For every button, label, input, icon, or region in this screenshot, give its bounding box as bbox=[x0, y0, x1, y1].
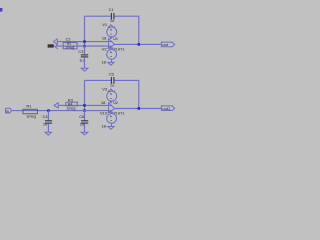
svg-text:1meg: 1meg bbox=[66, 107, 75, 111]
svg-text:C1: C1 bbox=[109, 7, 115, 12]
wire: node column bbox=[84, 80, 86, 110]
net stub fragment at left edge bbox=[0, 8, 2, 12]
junction node/lower bbox=[83, 109, 86, 112]
capacitor C4 bbox=[45, 111, 52, 133]
svg-text:V1: V1 bbox=[102, 22, 108, 27]
port out bbox=[161, 42, 174, 47]
wire: node column bbox=[84, 16, 86, 46]
svg-text:18: 18 bbox=[102, 36, 107, 41]
svg-text:C2: C2 bbox=[66, 37, 71, 42]
wire: feedback right segment + vertical drop bbox=[114, 16, 139, 44]
svg-text:1u: 1u bbox=[80, 121, 84, 126]
port out1 bbox=[161, 106, 174, 111]
capacitor C5 bbox=[111, 77, 114, 84]
wire: lower input line bottom stage bbox=[11, 110, 108, 112]
capacitor C1 bbox=[111, 13, 114, 20]
svg-text:U1: U1 bbox=[113, 37, 118, 41]
svg-text:C6: C6 bbox=[79, 114, 85, 119]
wire: feedback right segment + vertical drop bbox=[114, 80, 139, 108]
ground of C3 bbox=[81, 68, 88, 71]
port in bbox=[6, 108, 12, 113]
svg-text:1u: 1u bbox=[110, 18, 114, 23]
net tag chevron bbox=[55, 44, 58, 49]
wire: output to port bbox=[115, 43, 162, 45]
resistor R3 box bbox=[66, 102, 77, 106]
svg-text:C4: C4 bbox=[43, 114, 49, 119]
svg-text:R1: R1 bbox=[26, 104, 32, 109]
junction output/feedback bbox=[138, 43, 141, 46]
junction output/feedback bbox=[138, 107, 141, 110]
capacitor C6 bbox=[81, 111, 88, 133]
voltage source V3 bbox=[107, 89, 117, 103]
svg-text:18: 18 bbox=[101, 100, 106, 105]
svg-text:1u: 1u bbox=[79, 58, 83, 63]
svg-text:1meg: 1meg bbox=[26, 114, 36, 119]
input arrow flag bbox=[53, 39, 57, 44]
svg-text:U2: U2 bbox=[113, 101, 118, 105]
wire: upper input line bbox=[57, 41, 108, 43]
svg-text:out: out bbox=[162, 42, 168, 47]
op-amp U1 bbox=[109, 39, 115, 49]
junction node/upper bbox=[83, 40, 86, 43]
capacitor C3 bbox=[81, 46, 88, 68]
ground of C6 bbox=[81, 132, 88, 135]
junction node/lower bbox=[83, 45, 86, 48]
voltage source V1 bbox=[107, 25, 117, 39]
svg-text:V3: V3 bbox=[102, 86, 108, 91]
ground of V10 bbox=[108, 127, 114, 130]
wire: feedback left segment bbox=[85, 15, 112, 17]
svg-text:1u: 1u bbox=[110, 82, 114, 87]
wire: lower input line top stage bbox=[56, 45, 109, 47]
resistor R1 box bbox=[23, 109, 38, 113]
wire: upper input line bbox=[58, 104, 108, 106]
svg-text:1meg: 1meg bbox=[65, 45, 74, 49]
resistor R2 box bbox=[63, 43, 77, 49]
wire: output to port bbox=[115, 108, 162, 110]
svg-text:out1: out1 bbox=[162, 106, 171, 111]
svg-text:C3: C3 bbox=[78, 49, 84, 54]
svg-text:in: in bbox=[6, 109, 9, 113]
svg-text:1u: 1u bbox=[43, 121, 47, 126]
voltage source V2 bbox=[107, 46, 117, 62]
op-amp U2 bbox=[109, 103, 115, 113]
junction R1/C4 node bbox=[47, 109, 50, 112]
svg-text:18: 18 bbox=[101, 124, 106, 129]
svg-text:18: 18 bbox=[101, 59, 106, 64]
voltage source V10 bbox=[107, 110, 117, 126]
net tag dark label bbox=[48, 44, 54, 47]
svg-text:C5: C5 bbox=[109, 71, 115, 76]
svg-text:V2: V2 bbox=[102, 46, 108, 51]
input arrow flag bbox=[54, 103, 58, 108]
svg-text:V10: V10 bbox=[100, 111, 108, 116]
ground of V2 bbox=[108, 62, 114, 65]
junction node/upper bbox=[83, 104, 86, 107]
ground of C4 bbox=[45, 132, 51, 135]
wire: feedback left segment bbox=[85, 79, 112, 81]
